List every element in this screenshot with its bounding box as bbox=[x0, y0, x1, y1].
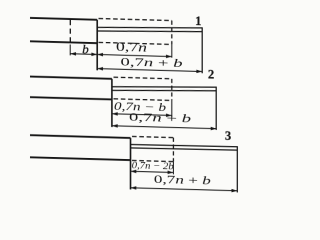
joint variant 2: sleeve bar top edge bbox=[30, 77, 112, 79]
joint variant 3: phantom cover outline bottom (dashed) bbox=[132, 160, 173, 161]
joint variant 1: sleeve bar bottom edge bbox=[30, 41, 97, 43]
joint variant 2: phantom cover outline bottom (dashed) bbox=[114, 99, 172, 101]
joint variant 3: thin strip top edge bbox=[131, 144, 238, 148]
dimension 0,7n+b line of variant 2 bbox=[112, 126, 217, 129]
joint variant 2: extension below phantom cover end bbox=[171, 100, 173, 117]
joint variant 2: phantom cover outline top (dashed) bbox=[114, 77, 172, 79]
joint variant 2: sleeve bar bottom edge bbox=[30, 97, 112, 99]
joint variant 1: hidden strip end inside sleeve (dashed) bbox=[69, 20, 71, 44]
joint variant 1: thin strip top edge bbox=[97, 25, 202, 30]
joint variant 1: sleeve bar top edge bbox=[30, 18, 97, 20]
svg-text:0,7n: 0,7n bbox=[116, 40, 147, 55]
joint variant 3: phantom cover outline right end (dashed) bbox=[172, 138, 174, 162]
joint variant 1: phantom cover outline bottom (dashed) bbox=[99, 42, 172, 44]
svg-text:0,7n + b: 0,7n + b bbox=[129, 110, 191, 126]
joint variant 1: thin strip bottom edge bbox=[97, 29, 202, 34]
joint variant 2: strip end cap with extension bbox=[215, 87, 217, 130]
dimension 0,7n−2b line bbox=[131, 171, 174, 172]
joint variant 1: extension line below hidden strip end bbox=[69, 44, 71, 55]
dimension 0,7n+b line of variant 1 bbox=[97, 69, 202, 72]
joint variant 3: strip end cap with extension bbox=[236, 146, 238, 192]
svg-text:0,7n − 2b: 0,7n − 2b bbox=[132, 161, 174, 172]
joint variant 2: phantom cover outline right end (dashed) bbox=[171, 79, 173, 101]
joint variant 1: phantom cover outline top (dashed) bbox=[99, 19, 172, 21]
joint variant 1: sleeve right end cap with extension bbox=[96, 20, 98, 71]
joint variant 3: sleeve bar bottom edge bbox=[30, 157, 131, 160]
dimension 0,7n−b line bbox=[112, 114, 172, 116]
dimension b line bbox=[70, 53, 97, 56]
svg-text:3: 3 bbox=[225, 129, 231, 143]
joint variant 2: thin strip top edge bbox=[112, 84, 216, 89]
joint variant 1: strip end cap with extension bbox=[201, 27, 203, 73]
svg-text:0,7n + b: 0,7n + b bbox=[154, 172, 211, 188]
dimension 0,7n+b line of variant 3 bbox=[131, 188, 238, 191]
svg-text:0,7n + b: 0,7n + b bbox=[121, 55, 183, 71]
joint variant 3: thin strip bottom edge bbox=[131, 147, 238, 151]
joint variant 3: sleeve bar top edge bbox=[30, 135, 131, 138]
joint variant 3: sleeve right end cap with extension bbox=[130, 138, 132, 190]
joint variant 1: extension below phantom cover end bbox=[171, 44, 173, 57]
joint variant 2: thin strip bottom edge bbox=[112, 88, 216, 93]
svg-text:b: b bbox=[82, 42, 89, 57]
joint variant 2: sleeve right end cap with extension bbox=[111, 79, 113, 127]
dimension 0,7n line bbox=[97, 54, 172, 56]
svg-text:1: 1 bbox=[195, 14, 201, 28]
joint variant 1: phantom cover outline right end (dashed) bbox=[171, 21, 173, 45]
joint variant 3: extension below phantom cover end bbox=[172, 162, 174, 175]
svg-text:2: 2 bbox=[208, 67, 214, 81]
joint variant 3: phantom cover outline top (dashed) bbox=[132, 136, 173, 137]
